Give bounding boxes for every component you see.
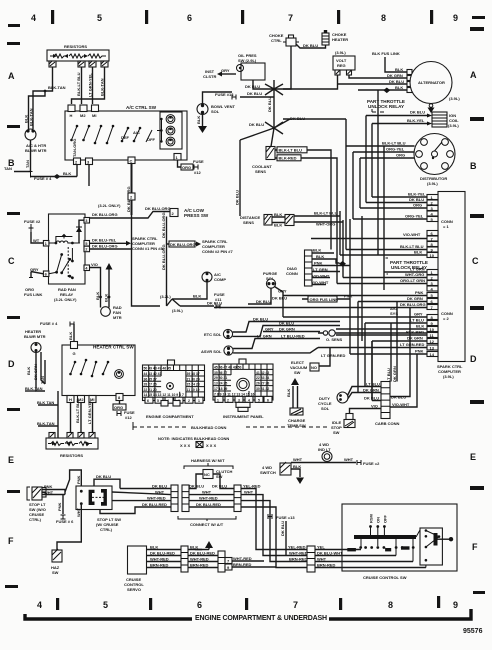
svg-text:9: 9 [453,13,458,23]
svg-text:#11: #11 [215,297,222,302]
conn2 pins 1-4 [427,270,438,292]
svg-text:BLK: BLK [190,545,198,550]
svg-text:ETC SOL: ETC SOL [204,332,222,337]
bottom row cells [145,397,153,403]
svg-text:RESISTORS: RESISTORS [64,44,87,49]
svg-text:LT BLU: LT BLU [386,368,391,382]
svg-text:BLK: BLK [150,545,158,550]
wire tab3 TAN-ORG down [88,165,90,187]
junction conn 2 box [128,193,135,200]
stop lt switch w/o cruise [32,487,42,500]
svg-text:TAN: TAN [4,166,12,171]
wire BLK pin10 [340,90,427,255]
svg-text:WHT-RED: WHT-RED [147,496,166,501]
wire BLK-LT BLU pin9 [346,119,427,250]
svg-text:(3.9L): (3.9L) [427,181,438,186]
wire DK BLU purge [248,288,271,304]
wire LT BLU duty to carb [348,385,382,396]
wire LT BLU conn2 pin9 [365,323,427,385]
svg-text:BLK-TAN: BLK-TAN [100,78,105,96]
svg-text:C: C [8,256,15,266]
wire DK GRN duty to carb [348,391,381,399]
wire WHT to ind lt and fuse 2 [291,462,356,464]
wire BLK-RED coolant [275,158,337,212]
svg-text:DK BLU: DK BLU [212,484,227,489]
svg-text:(3.9L): (3.9L) [335,50,346,55]
svg-text:BLK-LT BLU: BLK-LT BLU [400,244,424,249]
svg-text:9: 9 [453,600,458,610]
wire junction2 right to conn [283,118,346,120]
svg-text:PNK: PNK [415,290,424,295]
svg-text:REG: REG [337,63,346,68]
wire ORG pin3 [360,158,427,208]
svg-text:FUSE =2: FUSE =2 [363,461,380,466]
wire oil pres DK BLU to junction node [253,80,274,89]
wire ORG-LT GRN conn2 pin3 [337,212,427,284]
svg-text:SOL: SOL [211,109,220,114]
svg-text:YEL-RED: YEL-RED [243,484,261,489]
servo connector col [181,546,188,572]
svg-text:(3.2L ONLY): (3.2L ONLY) [98,203,121,208]
wire DK BLU-ORG conn2 pin7 [214,307,427,309]
svg-text:SW: SW [52,570,59,575]
svg-text:DK BLU: DK BLU [96,474,111,479]
svg-text:DK BLU: DK BLU [280,521,285,536]
wire bowl vent to fuse13 [203,92,233,104]
lamp block [160,112,182,149]
svg-text:RESISTORS: RESISTORS [60,453,83,458]
svg-text:DK BLU: DK BLU [279,321,294,326]
bottom ticks [56,598,59,610]
svg-text:DK BLU: DK BLU [235,190,240,205]
svg-text:17 18 19: 17 18 19 [214,387,227,391]
svg-text:DK BLU-WHT: DK BLU-WHT [317,551,343,556]
svg-text:WHT-RED: WHT-RED [233,556,252,561]
svg-text:SW (2.9L): SW (2.9L) [238,58,257,63]
svg-text:LT BLU: LT BLU [366,382,380,387]
svg-text:12: 12 [430,339,435,344]
svg-text:7: 7 [288,13,293,23]
bulkhead conn engine compartment grid [143,365,205,401]
wire BLK fuse4 to heater sw tab G [73,324,75,341]
svg-text:TAN: TAN [40,376,45,384]
svg-text:BLK TAN: BLK TAN [37,400,54,405]
svg-text:BLK: BLK [95,292,100,300]
tab M1 [92,105,99,112]
wire BLK-LT BLU from distance sens [294,215,340,217]
svg-text:WHT-RED: WHT-RED [190,557,209,562]
svg-text:BLK-YEL: BLK-YEL [407,118,425,123]
node diamond [339,261,346,267]
svg-text:(3.9L): (3.9L) [448,123,459,128]
wire DK BLU-ORG relay pin3 to junction [90,200,132,218]
conn1 pins 1-5 [427,195,438,223]
wire DK BLU through clutch sw [189,474,234,489]
harness bundle wires [100,489,171,514]
svg-text:NOTE: INDICATES BULKHEAD CONN: NOTE: INDICATES BULKHEAD CONN [158,436,229,441]
svg-text:LT GRN-YEL: LT GRN-YEL [88,73,93,97]
node X junction 2 [240,119,290,147]
svg-text:#12: #12 [194,170,201,175]
wire DK BLU to ign coil [366,115,427,117]
svg-text:BLK: BLK [313,248,321,253]
svg-text:6: 6 [147,399,149,403]
wire fuse13 feed [240,96,274,98]
svg-text:DK GRN: DK GRN [407,296,423,301]
svg-text:BLK-RED: BLK-RED [279,156,297,161]
heater lamp [115,370,124,379]
svg-text:5: 5 [258,398,260,402]
svg-text:DK GRN: DK GRN [392,366,397,382]
svg-text:NC: NC [204,472,210,477]
wire ORG-YEL pin5 [353,152,427,219]
svg-text:BLK-TAN: BLK-TAN [37,421,55,426]
svg-text:DK BLU-ORG: DK BLU-ORG [170,242,196,247]
harness connector col2 [182,485,189,512]
svg-text:4: 4 [31,13,36,23]
svg-text:FUSE: FUSE [193,159,204,164]
wire DK BLU etc sol lower [233,326,340,337]
bottom tab H [67,396,74,403]
node X junction 1 [265,80,283,128]
svg-text:FUS LINK: FUS LINK [24,292,43,297]
svg-text:COMP: COMP [214,277,226,282]
svg-text:BLK-YEL: BLK-YEL [408,192,426,197]
svg-text:G: G [73,351,76,356]
svg-text:A: A [470,70,477,80]
svg-text:PNK: PNK [344,294,353,299]
wire asvr lower [233,348,318,353]
svg-text:8: 8 [388,600,393,610]
oil pressure switch [241,63,265,80]
svg-text:ORG: ORG [114,405,123,410]
svg-text:6: 6 [187,13,192,23]
heater control switch S2 [62,345,135,396]
svg-text:YEL-RED: YEL-RED [288,545,306,550]
resistors R (blower) [47,50,109,61]
svg-text:WHT-RED: WHT-RED [199,496,218,501]
wire DK BLU etc sol upper [233,322,340,333]
svg-text:CTRL): CTRL) [29,517,42,522]
svg-text:SOL: SOL [321,406,330,411]
wire LT GRN-YEL tab M1 down [81,403,93,437]
wire WHT-ORG from distance sens [294,221,343,223]
cruise bundle connector col [307,546,315,572]
svg-text:NO: NO [311,365,317,370]
svg-text:LT GRN: LT GRN [257,334,272,339]
svg-text:3: 3 [238,398,240,402]
relay pin 2 [84,246,90,252]
resistors R2 [46,438,98,449]
svg-text:WHT: WHT [155,490,165,495]
svg-text:6: 6 [267,398,269,402]
haz switch [52,550,62,562]
charge temp switch [293,386,298,408]
svg-text:BRN-RED: BRN-RED [317,563,336,568]
svg-text:BLK: BLK [293,464,301,469]
svg-text:WHT-ORG: WHT-ORG [316,222,335,227]
wire DK BLU-ORG to AC low press sw [132,212,171,219]
wire BLK TAN lower [38,391,58,438]
svg-text:CLSTR: CLSTR [203,74,216,79]
wire DK GRN [41,352,45,384]
title bar [25,614,192,619]
carb connector [381,382,390,419]
diag wires [312,253,350,285]
relay pin 1 [43,241,49,247]
volt reg pins [335,70,340,75]
svg-text:RSM: RSM [369,513,374,523]
wire DK BLU over stop sw [94,479,120,488]
alternator [410,62,452,104]
svg-text:DK BLU-ORG: DK BLU-ORG [92,212,118,217]
svg-text:DK BLU: DK BLU [267,97,272,112]
svg-text:FUSE #2: FUSE #2 [24,219,41,224]
contact dots row [359,546,362,549]
svg-text:13: 13 [430,346,435,351]
bottom tab 2 [74,158,81,165]
top ticks [51,10,54,24]
bulkhead conn instrument panel grid [213,364,273,400]
svg-text:FUSE =13: FUSE =13 [276,515,295,520]
ground arrow [198,126,207,133]
bowl vent solenoid [197,104,208,115]
svg-text:= 2: = 2 [443,316,449,321]
svg-text:PNK: PNK [314,261,323,266]
left edge dashes [7,42,20,45]
conn2 pins 5-7 [427,293,438,311]
svg-text:SWITCH: SWITCH [260,470,276,475]
alternator pins [407,70,412,75]
svg-text:BLK-RED: BLK-RED [406,330,424,335]
svg-text:BLK-LT BLU: BLK-LT BLU [382,141,406,146]
distributor towers [421,139,428,146]
svg-text:CTRL): CTRL) [100,527,113,532]
svg-text:29 30 31: 29 30 31 [214,376,227,380]
svg-text:BLK-TAN: BLK-TAN [29,108,34,126]
alternator ground [429,104,433,108]
svg-text:5: 5 [157,399,159,403]
svg-text:44 43 42 41: 44 43 42 41 [144,372,162,376]
svg-text:FUSE # 6: FUSE # 6 [56,519,74,524]
rad fan relay K1 [49,214,86,284]
wire ORG [360,157,415,159]
svg-text:BLK: BLK [274,223,282,228]
wire BLK-TAN down to tab MI [72,67,105,104]
grid2 bottom cells [215,396,223,402]
ground 4wd [296,478,304,485]
svg-text:BRN-RED: BRN-RED [289,557,308,562]
wire BLK-RED conn2 pin11 [336,334,427,336]
svg-text:X X X: X X X [180,443,191,448]
svg-text:= 1: = 1 [443,224,449,229]
svg-text:5: 5 [97,13,102,23]
svg-text:A: A [8,71,15,81]
cruise control switch S3 [342,504,457,571]
switch contacts [70,125,152,145]
wire PNK down to fuse 6 [62,495,64,515]
fuse F12 [194,165,198,170]
wire BLK to ground [291,469,300,477]
ign coil pins [427,114,432,126]
svg-text:22 21 20: 22 21 20 [144,388,157,392]
heater switch contacts [69,359,109,378]
wire WHT to haz sw [57,504,81,550]
stop lt switch w/ cruise [76,486,112,510]
svg-text:30 31 32: 30 31 32 [256,387,269,391]
relay pin 5 [84,241,90,247]
switch sub box [420,528,442,565]
svg-text:BULKHEAD CONN: BULKHEAD CONN [191,425,226,430]
wire WHT to cruise stop sw [42,494,65,496]
wire DK GRN [349,75,407,78]
svg-text:BLK: BLK [196,116,201,124]
resistor connector pins [49,61,108,67]
svg-text:DK BLU: DK BLU [189,484,204,489]
wire blower to fuse 4 [14,140,31,172]
relay diode [79,220,84,243]
svg-text:10: 10 [430,253,435,258]
svg-text:50 49 48 47 46 45: 50 49 48 47 46 45 [144,367,171,371]
bottom tab M2 [78,396,85,403]
wires WHT-RED BRN-RED onward [232,561,276,567]
svg-text:CARB CONN: CARB CONN [375,421,400,426]
svg-text:(3.9L): (3.9L) [443,374,454,379]
svg-text:ORG: ORG [396,153,405,158]
svg-text:14 15 14 13 12 11 10 9 8 7: 14 15 14 13 12 11 10 9 8 7 [144,393,184,397]
conn2 pins 8-14 [427,315,438,358]
wire DK GRN vertical [396,302,398,382]
svg-text:TAN-ORG: TAN-ORG [72,139,77,157]
tab M2 [80,105,87,112]
svg-text:PRESS SW: PRESS SW [184,213,209,218]
svg-text:BRN-RED: BRN-RED [150,563,169,568]
svg-text:DK BLU: DK BLU [410,110,425,115]
svg-text:ORG: ORG [182,165,191,170]
svg-text:CONN #2 PIN #7: CONN #2 PIN #7 [202,249,233,254]
svg-text:GRY: GRY [278,289,287,294]
wire DK BLU pin2 [366,116,427,203]
svg-text:22 33 34: 22 33 34 [256,376,269,380]
choke control [286,38,296,46]
wire BLK-LT BLU to distributor [346,145,415,147]
wire PNK to stop sw riser [42,470,81,495]
svg-text:BLK: BLK [395,85,403,90]
svg-text:DK BLU: DK BLU [253,317,268,322]
svg-text:(3.2L): (3.2L) [160,294,171,299]
org fus link label [29,277,33,279]
svg-text:X X X: X X X [206,443,217,448]
svg-text:28 27 26: 28 27 26 [144,383,157,387]
svg-text:LT GRN: LT GRN [313,267,328,272]
svg-text:WT: WT [33,238,40,243]
svg-text:15 24 23: 15 24 23 [187,383,200,387]
svg-text:UNLOCK RELAY: UNLOCK RELAY [368,104,404,109]
svg-text:WHT: WHT [344,457,354,462]
svg-text:CTRL: CTRL [271,38,282,43]
lamp 1 [166,115,175,124]
lamp 3 [166,137,175,146]
svg-text:ASVR SOL: ASVR SOL [201,349,222,354]
svg-text:#12: #12 [125,415,132,420]
wire ORG-YEL [353,151,414,153]
svg-text:GRY: GRY [30,267,39,272]
spark ctrl computer U1 [438,192,465,362]
svg-text:TAN: TAN [25,160,30,168]
bottom tab M1 [89,396,96,403]
svg-text:E: E [8,455,14,465]
svg-text:BLK-TAN: BLK-TAN [25,386,43,391]
svg-text:A/C CTRL SW: A/C CTRL SW [126,105,157,110]
svg-text:E: E [470,452,476,462]
tab H [68,105,75,112]
svg-text:26 27 28: 26 27 28 [256,382,269,386]
svg-text:36 35 27: 36 35 27 [144,377,157,381]
svg-text:O. SENS: O. SENS [326,337,343,342]
svg-text:PNK: PNK [57,502,62,511]
svg-text:DK BLU: DK BLU [245,84,260,89]
svg-text:VIO-WHT: VIO-WHT [311,280,329,285]
wire GRY pin6 [31,272,43,278]
wire BLK left branch [29,91,46,129]
wire BLK-LT BLU down to tab H [81,67,83,104]
internal risers [361,527,426,568]
svg-text:2: 2 [188,399,190,403]
svg-text:VIO-WHT: VIO-WHT [392,402,410,407]
svg-text:MTR: MTR [113,315,122,320]
svg-text:21 30 29: 21 30 29 [187,377,200,381]
wire DK BLU to carb [372,341,381,401]
relay coil [49,241,80,243]
svg-text:ORG: ORG [413,203,422,208]
wire BLK arrow feed to motor [108,269,110,308]
bottom tab 3 [86,158,93,165]
svg-text:95576: 95576 [463,628,483,635]
svg-text:BLK: BLK [414,250,422,255]
svg-text:DK BLU-RED: DK BLU-RED [150,551,175,556]
svg-text:TEMP SW: TEMP SW [287,423,306,428]
svg-text:ORG FUS LINK: ORG FUS LINK [310,297,339,302]
svg-text:SERVO: SERVO [127,587,141,592]
svg-text:F: F [472,542,478,552]
svg-text:13 24 25: 13 24 25 [214,382,227,386]
svg-text:ORG-LT GRN: ORG-LT GRN [400,278,425,283]
svg-text:BLK: BLK [63,171,71,176]
relay pin 6 [43,271,49,277]
svg-text:35 36 37: 35 36 37 [214,371,227,375]
svg-text:SW: SW [294,370,301,375]
svg-text:ALTERNATOR: ALTERNATOR [418,80,445,85]
servo connector col2 with pins [218,551,225,572]
right edge dashes [470,27,484,31]
svg-text:GRY: GRY [221,68,230,73]
lamp feed dots [160,118,162,120]
svg-text:DK BLU: DK BLU [389,79,404,84]
svg-text:ORG-YEL: ORG-YEL [405,214,424,219]
svg-text:BRN-RED: BRN-RED [233,562,252,567]
svg-text:BLWR MTR: BLWR MTR [24,334,46,339]
wire choke down to junction [274,46,291,89]
wire BLK pair [272,217,285,223]
wire tab1 to fuse 12 [178,160,182,167]
voltage regulator [333,56,355,70]
wire GRY purge [275,287,284,318]
servo wires [147,548,210,568]
wire PNK conn2 pin5 [283,295,427,297]
svg-text:8: 8 [381,13,386,23]
svg-text:BLK: BLK [274,212,282,217]
A/C control switch S1 [65,111,187,160]
